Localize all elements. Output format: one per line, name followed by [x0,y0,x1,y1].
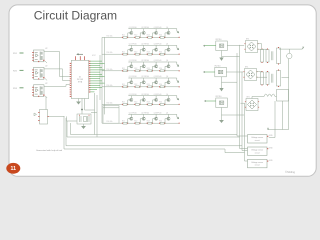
svg-text:©Sliding: ©Sliding [285,170,296,174]
svg-text:IR2110: IR2110 [216,39,222,41]
svg-text:IR2110: IR2110 [216,96,222,98]
svg-text:IR2110: IR2110 [215,65,221,67]
svg-text:11: 11 [11,166,17,172]
svg-text:Circuit Diagram: Circuit Diagram [34,9,117,23]
svg-text:Generated with help of tool: Generated with help of tool [36,149,63,152]
